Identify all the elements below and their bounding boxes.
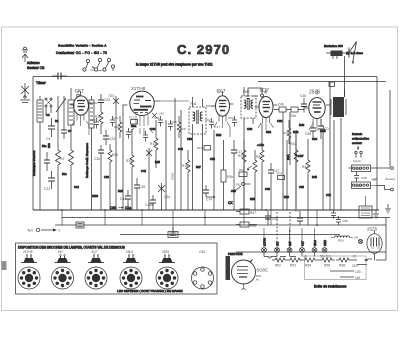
connection chain under heaters [264,253,315,261]
resistor R20 [108,144,118,210]
svg-text:50a: 50a [42,144,47,148]
svg-text:R56: R56 [339,264,345,268]
wire: right outer vertical [376,77,378,211]
capacitor C74 [203,185,214,202]
wire V1 plate link [89,102,98,104]
pilot lamp LP [354,236,363,244]
svg-text:70MC: 70MC [171,173,175,180]
tube V2 21TH8 (converter) [123,86,165,126]
wire: lower link bus [120,234,340,236]
padder trimmer CT2 [146,148,152,210]
svg-text:R26: R26 [180,127,186,131]
capacitor C23 [98,94,110,109]
svg-text:R15: R15 [155,160,160,164]
tuning capacitor CV1 [56,96,66,128]
svg-text:C52: C52 [205,118,211,122]
antenna coil L1 [37,96,43,130]
field coil block [326,51,349,60]
wave switch contacts row [45,98,52,115]
svg-text:R29: R29 [216,133,222,137]
heater drop wires [264,228,315,247]
wire column x330 [329,82,331,211]
capacitor C43 under 21TH8 right [143,131,148,142]
svg-text:+C7b: +C7b [257,143,264,147]
resistor R30 [256,123,264,210]
svg-text:FM2: FM2 [243,90,250,94]
socket S5 25Z6 [156,250,178,289]
wire column x323 [322,132,324,210]
svg-text:C6B: C6B [320,129,326,133]
wire: right vertical 390 [389,90,391,167]
resistor box R02 [129,116,138,125]
svg-text:C53: C53 [210,157,215,161]
svg-text:Trimer: Trimer [36,81,47,85]
svg-text:C40: C40 [150,127,156,131]
resistor R25 [126,129,134,210]
IF transformer IFT2 [241,87,256,210]
svg-text:+5: +5 [303,255,307,259]
pin stubs tube V5 [309,125,325,131]
resistor R34 [283,120,291,144]
svg-text:R31: R31 [266,130,272,134]
svg-text:6K7: 6K7 [75,89,84,95]
title C.2970 [177,42,230,57]
svg-text:R45: R45 [312,175,317,179]
socket S1 21TH8 [18,250,40,289]
svg-text:PENTODE: PENTODE [228,252,242,256]
svg-text:R18: R18 [182,164,188,168]
capacitor C17 [231,140,242,210]
capacitor C44 [120,190,131,210]
svg-text:C70: C70 [295,209,301,213]
capacitor C47 [268,163,279,210]
svg-text:C9R: C9R [361,176,368,180]
resistor R53 [268,255,302,268]
svg-text:C12: C12 [44,187,50,191]
svg-text:21TH8: 21TH8 [263,238,267,246]
resistor R2 [56,128,65,210]
tube 6G8C alternate [232,259,270,291]
capacitor C12 [44,171,55,191]
pin stubs tube V3 [214,122,230,137]
resistor R44 [302,139,310,225]
svg-text:C66: C66 [265,187,270,191]
capacitor CD tone [318,119,329,139]
wire: secondary top rail (output section) [258,81,386,83]
wire: chassis bus 2 [62,217,390,219]
wire column x214 [213,130,215,210]
svg-text:C3: C3 [46,113,50,117]
resistor R32 [221,140,233,210]
svg-text:R0a: R0a [131,124,137,128]
switch SW2 mains [353,147,362,164]
capacitor C22 [90,118,99,129]
svg-text:R27: R27 [196,165,201,169]
svg-text:5 3 7: 5 3 7 [214,125,221,129]
socket layout box [16,243,218,294]
svg-text:C98: C98 [372,177,378,181]
svg-text:6v: 6v [256,278,260,282]
svg-text:C55: C55 [305,132,311,136]
coupling network C4b box [274,103,291,113]
svg-text:C28: C28 [104,175,109,179]
svg-text:115: 115 [355,276,360,280]
svg-text:6K7: 6K7 [58,250,64,254]
svg-text:Swich: Swich [353,159,361,163]
line filter choke L5 [349,165,377,172]
ground: terre terminal [27,228,61,233]
socket S4 25L6 [120,250,142,289]
trimmer 7D3 [108,94,119,210]
svg-text:R22: R22 [114,125,120,129]
svg-text:+5: +5 [352,255,356,259]
tube V4 6Q7 (det/1st AF) [255,88,278,124]
svg-text:C4: C4 [46,137,50,141]
svg-text:R39: R39 [284,195,289,199]
capacitor C4 [46,118,55,141]
svg-text:R19: R19 [197,146,203,150]
legend: switch text line 2 (Contacteur OC-PO-GO-70) [56,51,107,55]
resistor R22 [114,116,122,138]
resistor R16 [95,109,103,135]
ground right 388 [385,204,391,213]
wire column x202 drop [202,128,204,210]
svg-text:C54: C54 [228,116,234,120]
svg-text:R43: R43 [293,130,299,134]
svg-text:Batterie: Batterie [352,132,363,136]
svg-text:R54: R54 [305,264,311,268]
svg-text:C36: C36 [154,116,160,120]
tap ladder 219/130/115 [330,240,386,280]
svg-text:R33: R33 [239,168,245,172]
resistor R26 [177,116,186,138]
svg-text:FM1: FM1 [190,102,197,106]
decoupling box on rail [329,82,335,87]
svg-text:secteur: secteur [352,141,362,145]
socket S2 6K7 [52,250,74,289]
resistor R11 [69,135,74,210]
svg-text:R55: R55 [324,264,330,268]
volume pot P1 (dashed link) [247,150,257,210]
pin stubs tube V2 [130,128,153,134]
svg-text:Contacteur OC - PO - GU - 70: Contacteur OC - PO - GU - 70 [56,51,107,55]
wire column x290 [289,112,291,165]
svg-text:6Q7: 6Q7 [92,250,98,254]
pin stubs tube V1 [72,121,89,135]
svg-text:C4b: C4b [278,103,284,107]
resistor R28 [238,140,246,210]
capacitor C52 [205,118,214,129]
svg-text:C2b: C2b [94,157,100,161]
svg-text:C50: C50 [187,137,193,141]
svg-text:6Q7: 6Q7 [260,88,270,94]
mains terminal upper [377,167,394,170]
svg-text:Terr: Terr [27,229,34,233]
svg-text:C60: C60 [247,127,253,131]
capacitor CB on mains input [52,73,67,80]
svg-text:C72: C72 [326,193,331,197]
mains terminal lower [377,177,396,191]
svg-text:R35: R35 [250,197,255,201]
svg-text:la lampe 21TH8 peut etre rempl: la lampe 21TH8 peut etre remplacee par u… [136,63,213,67]
wire column x123 [122,105,124,210]
note: batterie antiparasites secteur [352,132,370,145]
svg-text:C24: C24 [109,137,115,141]
svg-text:C9B: C9B [342,219,348,223]
capacitor C70 on bus [295,209,303,225]
svg-text:10000: 10000 [354,167,362,171]
svg-text:R34: R34 [283,131,289,135]
socket S3 6Q7 [85,250,107,289]
svg-text:C. 2970: C. 2970 [177,42,230,57]
svg-text:C93: C93 [110,206,116,210]
fuse FU [236,183,251,191]
wire: left vertical drop from rail [32,77,34,211]
wire: column x40 to bus [39,130,41,210]
antenna symbol [22,47,28,62]
svg-text:7D3: 7D3 [108,94,114,98]
svg-text:C45a: C45a [145,203,153,207]
tube V6 25Z6 (rectifier) [367,227,382,261]
tube V3 6K7 (IF amp) [212,89,234,129]
svg-text:R20: R20 [112,153,118,157]
resistor row R54 R55 R56 [300,255,357,268]
svg-text:R1: R1 [55,119,59,123]
svg-text:R4A: R4A [286,154,290,160]
wire: right vertical 386 [385,218,387,240]
svg-text:R47: R47 [250,211,256,215]
svg-text:C58: C58 [231,189,236,193]
wire column x175 with label [171,98,176,210]
svg-text:C74: C74 [206,198,212,202]
svg-text:C62: C62 [277,119,283,123]
svg-text:C64: C64 [312,137,318,141]
svg-text:LES REPERES ( SONT FRAISES: LES REPERES ( SONT FRAISES ) EN MASSE [117,289,183,293]
svg-text:6Q7: 6Q7 [301,241,305,246]
resistor R7b box [277,172,285,180]
capacitor C94 under 21TH8 [126,128,131,139]
label C93 - C1a on bus [110,206,131,210]
output transformer T1 [331,89,346,117]
svg-text:R3b: R3b [290,114,296,118]
junction dots on buses [61,196,318,226]
resistor R47 [236,209,256,215]
svg-text:R2: R2 [60,157,64,161]
wire: chassis bus 1 [33,209,379,211]
svg-text:25Z6: 25Z6 [323,240,327,246]
socket S6 OZ4 (open) [192,250,214,289]
resistor R46 [236,222,257,228]
svg-text:Secteur: Secteur [385,177,395,181]
capacitor C26 [94,145,104,210]
heater labels vertical [263,238,328,246]
tube V1 6K7 [70,89,91,121]
svg-text:Secteur CB: Secteur CB [27,66,45,70]
svg-text:25Z6: 25Z6 [367,227,378,232]
ballast coil R50 [331,236,353,243]
svg-text:R25: R25 [126,159,132,163]
resistor R14 [150,120,158,168]
svg-text:25L6: 25L6 [126,250,133,254]
trimmer CT3 [158,183,170,210]
scattered value labels [42,144,331,201]
capacitor C90 [265,211,278,225]
svg-text:C1a: C1a [125,206,131,210]
svg-text:C14: C14 [74,185,79,189]
switch SW1 contact circles [83,58,115,71]
legend: switch text line 1 [58,44,107,48]
svg-text:1500: 1500 [92,194,98,198]
capacitor C7 [44,152,50,171]
svg-text:130 -: 130 - [355,270,363,274]
svg-text:C31: C31 [113,116,119,120]
wire grid link 21TH8 to IFT1 [160,100,190,102]
svg-text:C48: C48 [300,94,306,98]
capacitor C45a [145,195,156,210]
IF transformer IFT1 [189,97,206,210]
resistor R42 [290,130,298,210]
resistor R33 box [239,168,247,177]
svg-text:10000: 10000 [354,184,362,188]
svg-text:Sensibilite Variable - Section: Sensibilite Variable - Section A [58,44,107,48]
svg-text:25Z6: 25Z6 [162,250,169,254]
terminal block B2 [76,222,84,228]
capacitor C45 [134,178,145,210]
svg-text:R42: R42 [290,142,296,146]
svg-text:R14: R14 [150,142,156,146]
wire column x166 [165,120,167,210]
svg-text:R1b: R1b [95,115,101,119]
svg-text:C49: C49 [178,147,183,151]
svg-text:C23: C23 [104,98,110,102]
svg-text:C7: C7 [68,129,72,133]
wire column x287 [286,140,288,210]
ground symbol right of bus [373,210,379,218]
svg-text:Boite de resistances: Boite de resistances [314,285,347,289]
wire: top antenna rail [33,76,377,78]
svg-text:R28: R28 [238,154,244,158]
svg-text:R7b: R7b [277,172,283,176]
svg-text:6K7: 6K7 [276,241,280,246]
speaker LS1 [349,42,357,64]
resistor R19 box [197,146,211,151]
mains entry box [359,196,372,218]
capacitor C9 left [61,124,67,139]
svg-text:25L6: 25L6 [309,90,320,96]
svg-text:C44: C44 [120,197,126,201]
svg-text:C4d: C4d [141,169,146,173]
svg-text:R30: R30 [256,155,262,159]
pin stubs tube V4 [258,123,274,130]
svg-text:Antenne: Antenne [27,61,40,65]
line filter choke L6 [352,177,378,189]
label row small smudge texts [46,113,318,141]
wire: chassis bus 3 [55,224,386,226]
capacitor C54 [228,116,237,127]
wire column x296 with node C8T [293,130,304,210]
svg-text:6G8C: 6G8C [257,268,270,273]
capacitor C55 [305,122,316,139]
capacitor C31 [110,116,119,127]
label excitation 300 [324,44,363,55]
svg-text:DISPOSITION DES BROCHES DE: DISPOSITION DES BROCHES DE LAMPES, CUVET… [18,246,125,250]
capacitor C46 grid cap to 6Q7 [247,88,263,99]
svg-text:21TH8: 21TH8 [23,250,33,254]
svg-text:R50: R50 [338,239,344,243]
svg-text:antiparasites: antiparasites [352,137,370,141]
resistor R18 [182,150,190,210]
wire: speaker drop [344,56,346,97]
svg-text:6K7: 6K7 [288,241,292,246]
dark bar right of socket box [226,252,243,280]
capacitor C9R middle [354,172,368,183]
svg-text:C38: C38 [171,120,177,124]
svg-text:C42: C42 [159,112,165,116]
capacitor C48 [300,94,307,113]
svg-text:R52: R52 [275,264,281,268]
label Antenne / Secteur CB [27,61,47,85]
oscillator coil L2 [68,88,74,135]
wire IFT1 to 6K7 [206,105,216,107]
svg-text:Bobinages d'accord: Bobinages d'accord [32,150,36,176]
svg-text:C2a: C2a [164,195,170,199]
svg-text:25L6: 25L6 [313,240,317,246]
resistor R52 [272,258,288,268]
wire column x341 [340,118,342,210]
svg-text:6K7: 6K7 [217,89,226,95]
svg-text:Bobinage Oscill. Moyennes: Bobinage Oscill. Moyennes [85,142,89,178]
svg-text:Excitation 300: Excitation 300 [324,44,343,48]
stamp mark left edge [2,261,7,270]
svg-text:R1c: R1c [62,172,67,176]
svg-text:LPL: LPL [354,236,359,240]
svg-text:219 -: 219 - [352,264,360,268]
svg-text:R23: R23 [118,189,123,193]
svg-text:C45: C45 [139,185,145,189]
wire column x181 [180,110,182,210]
capacitor C38 [168,120,177,131]
note: lamp replacement subtitle [136,63,213,67]
svg-text:R40: R40 [299,123,305,127]
capacitor C92 near bus right [331,210,336,219]
wire column x283 [282,112,284,210]
svg-text:R44: R44 [302,165,308,169]
resistor R3c box [290,107,304,118]
svg-text:50+110: 50+110 [320,255,331,259]
resistance box outline [305,256,367,280]
svg-text:300: 300 [47,143,51,148]
svg-text:C8T: C8T [298,154,304,158]
capacitor C36 [154,116,163,127]
capacitor C24 [103,130,115,145]
svg-text:C22: C22 [90,118,96,122]
svg-text:C68: C68 [299,185,304,189]
heater chain wire [236,251,386,253]
svg-text:R3b: R3b [227,175,233,179]
wire column x334 [333,120,335,210]
wire ticks bus1 to bus3 [62,210,317,235]
tube V5 25L6 (output) [304,90,330,126]
svg-text:OZ4: OZ4 [199,250,205,254]
heater lamp symbols [262,248,327,253]
capacitor C91 [336,216,348,225]
trimmer CT1 antenna input [20,83,30,103]
svg-text:CX: CX [228,201,233,205]
oscillator coil L3 [89,96,94,210]
dashed gang lines [276,212,278,250]
svg-text:FC2: FC2 [129,116,135,120]
link box 152 on lower bus [168,227,178,238]
